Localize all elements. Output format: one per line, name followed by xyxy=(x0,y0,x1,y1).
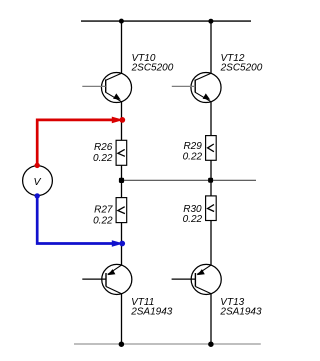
transistor VT12 xyxy=(172,72,221,102)
wire mid rail (output node) xyxy=(122,179,257,181)
svg-text:0.22: 0.22 xyxy=(183,152,203,163)
wire mid rail to R30 xyxy=(210,180,212,196)
label R30 xyxy=(183,204,203,225)
resistor R27 xyxy=(116,198,127,223)
node top-left junction xyxy=(119,19,124,24)
wire bottom rail xyxy=(74,343,261,345)
svg-text:R26: R26 xyxy=(94,142,113,153)
node mid-left junction xyxy=(119,178,124,183)
wire VT10 collector lead xyxy=(121,21,123,73)
wire voltmeter blue probe xyxy=(35,193,126,247)
transistor VT11 xyxy=(82,264,132,294)
transistor VT13 xyxy=(172,264,222,294)
label VT11 xyxy=(130,297,173,318)
wire R29 to mid rail xyxy=(210,160,212,180)
voltmeter V xyxy=(23,166,53,196)
label R26 xyxy=(93,142,113,164)
wire R26 to mid rail xyxy=(121,165,123,180)
wire voltmeter red probe xyxy=(35,117,126,168)
svg-text:0.22: 0.22 xyxy=(93,153,113,164)
node top-right junction xyxy=(208,19,213,24)
svg-text:R29: R29 xyxy=(183,141,202,152)
svg-text:2SC5200: 2SC5200 xyxy=(131,62,174,73)
resistor R29 xyxy=(206,136,217,161)
svg-text:R27: R27 xyxy=(94,204,113,215)
wire VT11 collector to bottom rail xyxy=(121,294,123,344)
label R29 xyxy=(183,141,203,162)
svg-text:2SC5200: 2SC5200 xyxy=(220,62,263,73)
wire top rail xyxy=(81,20,251,22)
node bottom-right junction xyxy=(208,341,214,347)
label VT12 xyxy=(220,53,263,73)
svg-text:2SA1943: 2SA1943 xyxy=(130,307,173,318)
svg-text:2SA1943: 2SA1943 xyxy=(219,307,262,318)
label VT10 xyxy=(131,53,174,73)
wire R30 to VT13 xyxy=(210,221,212,266)
svg-text:0.22: 0.22 xyxy=(93,216,113,227)
wire VT10 emitter to R26 xyxy=(121,102,123,141)
node bottom-left junction xyxy=(119,341,125,347)
label R27 xyxy=(93,204,113,226)
svg-text:0.22: 0.22 xyxy=(183,214,203,225)
wire VT12 emitter to R29 xyxy=(210,102,212,136)
label VT13 xyxy=(219,297,262,318)
transistor VT10 xyxy=(82,72,131,102)
wire VT13 collector to bottom rail xyxy=(210,294,212,344)
wire mid rail to R27 xyxy=(121,180,123,197)
resistor R26 xyxy=(116,140,127,165)
node mid-right junction xyxy=(208,178,213,183)
svg-text:V: V xyxy=(34,176,42,188)
wire R27 to VT11 xyxy=(121,223,123,266)
resistor R30 xyxy=(206,196,217,221)
wire VT12 collector lead xyxy=(210,21,212,73)
